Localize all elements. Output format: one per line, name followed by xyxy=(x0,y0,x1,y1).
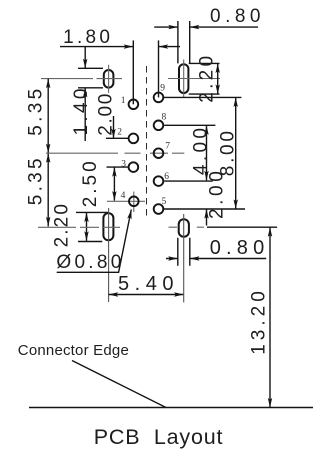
hole 4 horizontal centerline xyxy=(107,200,145,202)
dimension 8.00 dim line xyxy=(235,97,237,209)
hole 8 xyxy=(154,121,164,131)
slot S3 horizontal centerline xyxy=(168,78,220,80)
hole 9 xyxy=(154,93,164,103)
svg-text:2.50: 2.50 xyxy=(80,158,101,207)
svg-text:4: 4 xyxy=(121,191,126,201)
dimension 2.00 left arrow xyxy=(113,116,115,138)
hole 4 vertical centerline xyxy=(133,192,135,213)
connector edge leader xyxy=(72,361,166,408)
main horizontal centerline xyxy=(46,152,184,154)
svg-text:5.35: 5.35 xyxy=(26,155,47,205)
hole 1 xyxy=(129,100,139,110)
slot S4 vertical centerline extended to 5.40 xyxy=(183,214,185,302)
dimension 5.35 upper dim line xyxy=(47,79,49,154)
svg-text:2: 2 xyxy=(117,128,122,138)
svg-text:1.40: 1.40 xyxy=(71,85,92,135)
slot S1 (top left) xyxy=(104,70,114,88)
svg-text:1: 1 xyxy=(121,96,126,106)
dimension 2.20 left dim line xyxy=(86,212,88,241)
slot S3 vertical centerline xyxy=(183,60,185,99)
dimension 1.80 dim line xyxy=(60,46,180,48)
slot S3 bottom edge extension line right xyxy=(189,93,220,95)
svg-text:Ø0.80: Ø0.80 xyxy=(56,252,124,273)
svg-text:9: 9 xyxy=(160,84,165,94)
dimension 1.80 arrowheads xyxy=(124,44,168,48)
svg-text:1.80: 1.80 xyxy=(63,27,113,48)
svg-text:5.40: 5.40 xyxy=(118,273,179,295)
dimension 5.35 lower dim line xyxy=(47,153,49,226)
slot S4 edge extension lines down xyxy=(178,238,190,266)
slot S3 top edge extension line right xyxy=(189,62,220,64)
extension line into hole 9 xyxy=(158,40,160,97)
svg-text:PCB Layout: PCB Layout xyxy=(94,425,224,449)
svg-text:Connector Edge: Connector Edge xyxy=(18,342,129,359)
dimension 0.80 right dim line xyxy=(166,258,266,260)
hole 3 extension line xyxy=(107,166,129,168)
slot S4 (bottom right) xyxy=(179,219,189,237)
dimension 2.50 dim line xyxy=(113,167,115,201)
dimension 2.00 right arrow xyxy=(206,209,208,226)
svg-text:2.00: 2.00 xyxy=(207,168,228,219)
slot S2 (bottom left) xyxy=(103,213,113,240)
dimension 5.40 dim line xyxy=(109,294,184,296)
slot S1 vertical centerline xyxy=(108,65,110,93)
slot S3 edge extension lines up xyxy=(178,21,190,63)
hole 2 xyxy=(129,134,139,144)
hole 6 extension line right xyxy=(164,180,213,182)
svg-text:3: 3 xyxy=(121,160,126,170)
svg-text:0.80: 0.80 xyxy=(210,6,265,27)
slot S4 horizontal centerline xyxy=(169,226,205,228)
svg-text:2.20: 2.20 xyxy=(52,202,73,247)
dimension 1.40 lower arrow xyxy=(84,88,86,141)
svg-text:7: 7 xyxy=(165,142,170,152)
svg-text:13.20: 13.20 xyxy=(249,287,270,355)
svg-text:5: 5 xyxy=(162,197,167,207)
hole 6 xyxy=(154,176,164,186)
svg-text:0.80: 0.80 xyxy=(210,237,270,259)
svg-text:8: 8 xyxy=(162,113,167,123)
slot S2 top edge extension line xyxy=(76,211,109,213)
PCB edge line xyxy=(29,407,313,409)
slot row bottom horizontal centerline left xyxy=(38,226,120,228)
slot S3 (top right) xyxy=(179,64,188,93)
svg-text:2.00: 2.00 xyxy=(96,92,117,136)
leader Ø0.80 xyxy=(57,210,132,273)
dimension 0.80 top dim line xyxy=(154,26,258,28)
extension line into hole 1 xyxy=(132,40,134,104)
dimension 1.40 upper arrow xyxy=(84,47,86,68)
hole 4 xyxy=(129,197,139,207)
svg-text:2.20: 2.20 xyxy=(197,53,218,103)
dimension 13.20 dim line xyxy=(269,227,271,407)
vertical dashed centerline xyxy=(146,66,148,219)
slot S1 bottom edge extension line xyxy=(78,87,103,89)
hole 9 extension line right xyxy=(164,96,241,98)
hole 3 xyxy=(129,162,139,172)
svg-text:4.00: 4.00 xyxy=(191,125,212,175)
slot S2 vertical centerline extended to 5.40 xyxy=(108,208,110,302)
hole 8 extension line right xyxy=(164,124,215,126)
slot row top horizontal centerline xyxy=(41,78,122,80)
dimension 13.20 top reference line xyxy=(207,226,277,228)
dimension 4.00 dim line xyxy=(206,125,208,180)
hole 7 xyxy=(154,148,164,158)
slot S1 top edge extension line xyxy=(78,67,103,69)
slot S2 bottom edge extension line xyxy=(78,241,102,243)
hole 2 extension line xyxy=(106,137,128,139)
svg-text:5.35: 5.35 xyxy=(26,86,47,136)
dimension 2.20 right dim line xyxy=(217,63,219,94)
hole 5 extension line right xyxy=(164,208,245,210)
hole 5 xyxy=(154,204,164,214)
